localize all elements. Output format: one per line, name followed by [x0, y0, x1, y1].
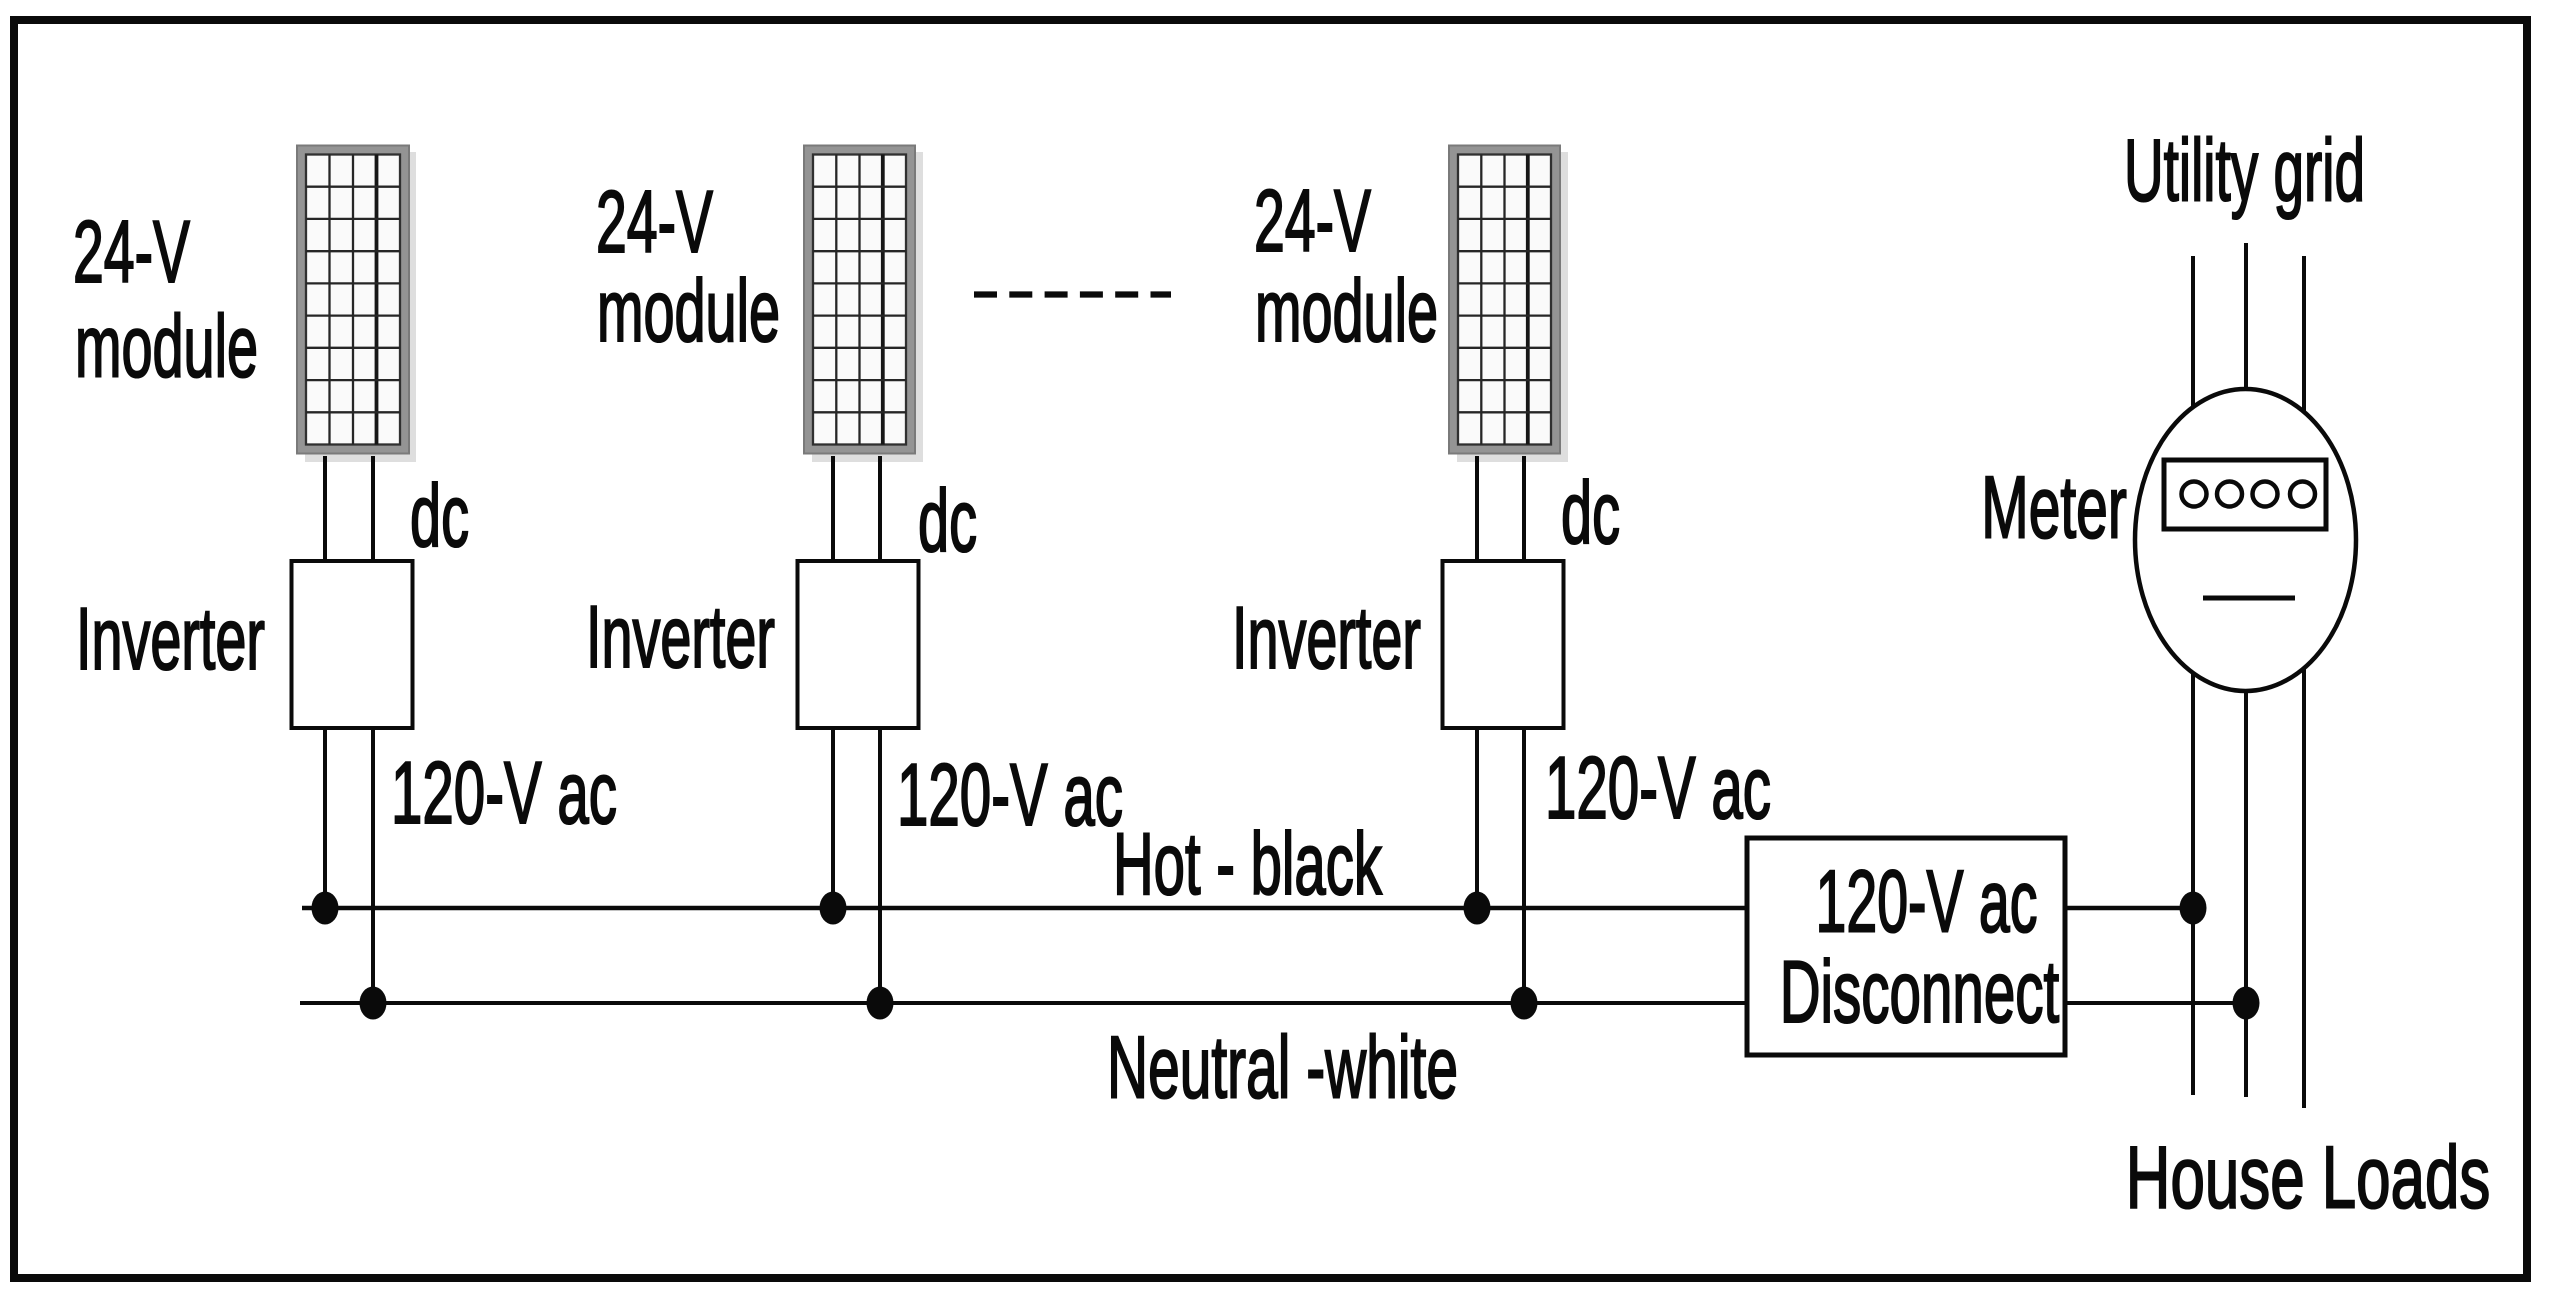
- svg-text:120-V ac: 120-V ac: [1816, 852, 2038, 951]
- svg-text:Hot - black: Hot - black: [1113, 814, 1383, 913]
- meter register box: [2164, 460, 2326, 529]
- junction grid hot: [2180, 892, 2207, 925]
- dashed continuation line between module 2 and module 3: [974, 291, 1171, 297]
- meter dial 3: [2253, 482, 2278, 507]
- junction U2 hot: [820, 892, 847, 925]
- meter dial 4: [2290, 482, 2315, 507]
- inverter U1: [292, 561, 413, 728]
- wire dc plus PV1 to inverter U1: [323, 456, 327, 563]
- svg-text:Meter: Meter: [1981, 458, 2127, 557]
- svg-text:Neutral -white: Neutral -white: [1107, 1018, 1458, 1117]
- wire ac hot inverter U1 to hot bus: [323, 728, 327, 908]
- wire utility grid line 2: [2244, 243, 2248, 1097]
- svg-text:dc: dc: [1561, 463, 1620, 562]
- wire disconnect to utility grid hot: [2065, 906, 2193, 911]
- wire dc minus PV2 to inverter U2: [878, 456, 882, 563]
- wire ac neutral inverter U2 to neutral bus: [878, 728, 882, 1003]
- wire dc plus PV2 to inverter U2: [831, 456, 835, 563]
- wire disconnect to utility grid neutral: [2065, 1001, 2246, 1005]
- svg-text:24-V: 24-V: [596, 172, 713, 271]
- wire ac neutral inverter U3 to neutral bus: [1522, 728, 1526, 1003]
- junction U1 neutral: [360, 987, 387, 1020]
- meter dial 1: [2182, 482, 2207, 507]
- wire dc minus PV1 to inverter U1: [371, 456, 375, 563]
- wire ac hot inverter U2 to hot bus: [831, 728, 835, 908]
- svg-text:Inverter: Inverter: [586, 587, 775, 686]
- inverter U3: [1443, 561, 1564, 728]
- junction U3 neutral: [1511, 987, 1538, 1020]
- meter dial 2: [2217, 482, 2242, 507]
- svg-text:House Loads: House Loads: [2126, 1127, 2491, 1226]
- svg-text:120-V ac: 120-V ac: [1545, 738, 1771, 837]
- wire dc minus PV3 to inverter U3: [1522, 456, 1526, 563]
- PV module PV3 (24-V module): [1449, 146, 1568, 463]
- inverter U2: [798, 561, 919, 728]
- svg-text:24-V: 24-V: [1254, 171, 1371, 270]
- junction U3 hot: [1464, 892, 1491, 925]
- wire neutral bus (Neutral - white): [300, 1001, 1747, 1005]
- junction U2 neutral: [867, 987, 894, 1020]
- svg-text:120-V ac: 120-V ac: [897, 745, 1123, 844]
- svg-text:Utility grid: Utility grid: [2124, 121, 2365, 220]
- svg-text:dc: dc: [410, 466, 469, 565]
- PV module PV1 (24-V module): [297, 146, 416, 463]
- svg-text:module: module: [1255, 261, 1438, 360]
- svg-text:Disconnect: Disconnect: [1780, 942, 2060, 1041]
- junction U1 hot: [312, 892, 339, 925]
- wire dc plus PV3 to inverter U3: [1475, 456, 1479, 563]
- meter face mark: [2203, 596, 2295, 601]
- svg-text:dc: dc: [918, 471, 977, 570]
- wire ac hot inverter U3 to hot bus: [1475, 728, 1479, 908]
- svg-text:24-V: 24-V: [73, 202, 190, 301]
- svg-text:Inverter: Inverter: [76, 589, 265, 688]
- wire hot bus (Hot - black): [302, 906, 1747, 911]
- wire ac neutral inverter U1 to neutral bus: [371, 728, 375, 1003]
- disconnect box (120-V ac Disconnect): [1747, 838, 2065, 1055]
- svg-text:module: module: [75, 297, 258, 396]
- svg-text:Inverter: Inverter: [1232, 588, 1421, 687]
- PV module PV2 (24-V module): [804, 146, 923, 463]
- wire utility grid line 3: [2302, 256, 2306, 1108]
- junction grid neutral: [2233, 987, 2260, 1020]
- meter body: [2135, 389, 2356, 691]
- wire utility grid line 1: [2191, 256, 2195, 1095]
- svg-text:module: module: [597, 261, 780, 360]
- svg-text:120-V ac: 120-V ac: [391, 743, 617, 842]
